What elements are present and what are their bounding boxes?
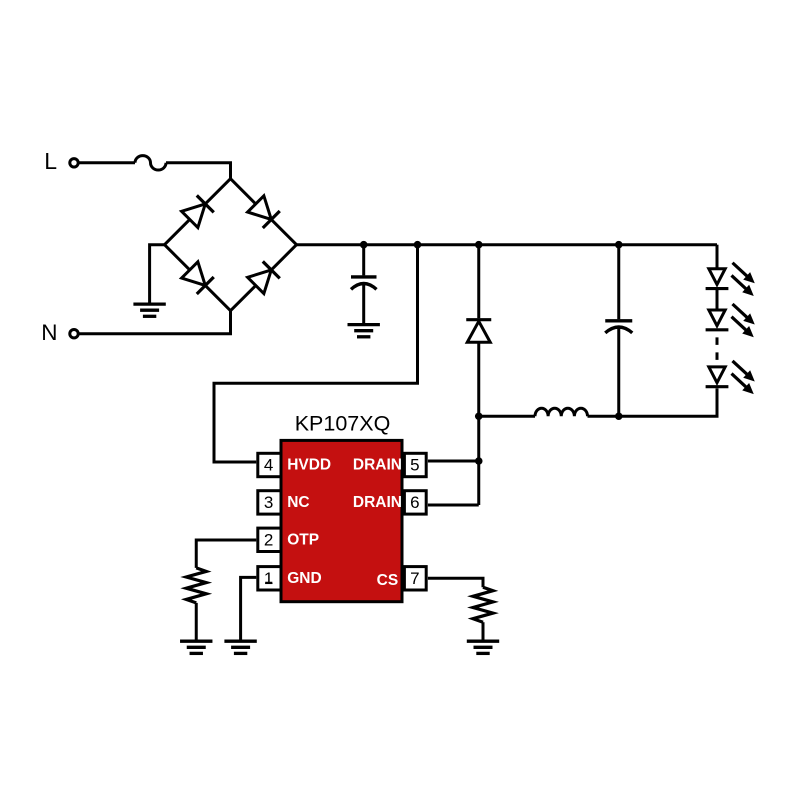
wire bridge left vertex to ground <box>150 245 165 303</box>
node bus-C1 junction <box>360 241 368 249</box>
node bus-D5 junction <box>475 241 483 249</box>
diode D1 bridge top-left <box>181 195 214 228</box>
wire dashed LED2 to LED3 <box>716 337 719 360</box>
wire R1 to ground <box>195 603 198 640</box>
svg-text:4: 4 <box>264 456 273 475</box>
arrow LED3 a <box>729 357 758 385</box>
wire N to bridge bottom vertex <box>79 311 231 334</box>
fuse F1 <box>135 156 166 170</box>
svg-text:HVDD: HVDD <box>287 457 331 474</box>
wire LED column bottom <box>588 388 718 416</box>
wire D5 top stub <box>477 245 480 319</box>
pin 6 box <box>404 491 426 514</box>
svg-text:CS: CS <box>377 572 399 589</box>
svg-text:DRAIN: DRAIN <box>353 457 402 474</box>
ground GND pin <box>224 641 256 653</box>
wire main bus top <box>297 243 718 246</box>
arrow LED3 b <box>728 370 757 398</box>
terminal L <box>70 159 78 167</box>
pin 7 box <box>404 567 426 590</box>
wire pin2 to R1 <box>196 540 256 568</box>
svg-text:6: 6 <box>410 493 419 512</box>
node bus-HVDD junction <box>414 241 422 249</box>
node bottom-D5 junction <box>475 412 483 420</box>
wire pin6 to drain node <box>428 504 479 507</box>
wire pin5 to drain node <box>428 460 479 463</box>
pin 4 box <box>258 453 281 476</box>
pin 1 number foot serif <box>265 582 272 584</box>
node bus-C2 junction <box>615 241 623 249</box>
svg-text:3: 3 <box>264 493 273 512</box>
svg-text:1: 1 <box>264 569 273 588</box>
ground bridge <box>133 304 165 316</box>
bridge arm bottom-right wire <box>231 245 297 311</box>
IC U1 KP107XQ body <box>281 440 402 601</box>
svg-text:KP107XQ: KP107XQ <box>295 411 391 435</box>
capacitor C1 <box>351 277 377 323</box>
svg-text:L: L <box>44 148 57 174</box>
svg-text:NC: NC <box>287 494 309 511</box>
wire LED1 to LED2 <box>716 289 719 310</box>
capacitor C2 <box>605 321 632 416</box>
svg-text:N: N <box>41 320 57 345</box>
arrow LED1 a <box>729 259 758 287</box>
pin 2 box <box>258 528 281 551</box>
wire pin7 to R2 <box>428 578 483 587</box>
wire inductor to drain node <box>479 415 535 418</box>
inductor L1 <box>535 408 588 416</box>
bridge arm top-right wire <box>231 179 297 245</box>
diode D5 freewheel <box>466 320 491 343</box>
wire C1 top stub <box>362 245 365 276</box>
LED LED3 <box>706 367 729 387</box>
wire D5 anode to drain node <box>477 342 480 505</box>
bridge arm bottom-left wire <box>165 245 231 311</box>
resistor R2 <box>473 587 493 622</box>
arrow LED2 b <box>728 313 757 341</box>
pin 5 box <box>404 453 426 476</box>
arrow LED1 b <box>728 272 757 300</box>
wire HVDD feed <box>214 245 418 462</box>
svg-text:GND: GND <box>287 570 321 587</box>
diode D4 bridge bottom-right <box>247 261 280 294</box>
wire fuse to bridge top vertex <box>166 163 231 179</box>
svg-text:5: 5 <box>410 456 419 475</box>
ground C1 <box>348 325 380 337</box>
diode D2 bridge top-right <box>247 195 280 228</box>
pin 3 box <box>258 491 281 514</box>
LED LED1 <box>706 269 729 289</box>
pin 1 box <box>258 567 281 590</box>
LED LED2 <box>706 310 729 330</box>
resistor R1 <box>186 568 206 603</box>
arrow LED2 a <box>729 300 758 328</box>
node bottom-C2 junction <box>615 412 623 420</box>
wire R2 to ground <box>482 622 485 640</box>
diode D3 bridge bottom-left <box>181 261 214 294</box>
node drain pin5 junction <box>475 457 483 465</box>
ground R2 <box>467 641 499 653</box>
svg-text:7: 7 <box>410 569 419 588</box>
wire L to fuse <box>79 161 135 164</box>
svg-text:2: 2 <box>264 531 273 550</box>
svg-text:DRAIN: DRAIN <box>353 494 402 511</box>
wire C2 top stub <box>617 245 620 320</box>
wire pin1 to ground <box>241 577 257 639</box>
ground R1 <box>180 641 212 653</box>
terminal N <box>70 330 78 338</box>
bridge arm top-left wire <box>165 179 231 245</box>
svg-text:OTP: OTP <box>287 532 319 549</box>
wire LED column top <box>716 245 719 269</box>
